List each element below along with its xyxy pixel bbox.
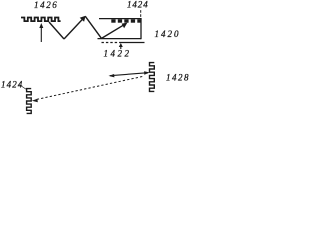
dashed connector with left arrowhead xyxy=(37,76,144,99)
prism 1420 bottom edge xyxy=(98,38,142,40)
svg-text:1426: 1426 xyxy=(34,0,58,10)
svg-text:1420: 1420 xyxy=(155,29,181,39)
leader from label 1424 to prism corner xyxy=(140,10,142,18)
svg-text:1424: 1424 xyxy=(1,79,23,89)
base line 1422 (dashed then solid) xyxy=(102,42,121,44)
grating 1426 (horizontal comb) xyxy=(21,18,61,22)
beam segment A (wire) xyxy=(49,22,64,39)
svg-text:1424: 1424 xyxy=(127,0,149,9)
prism 1420 right edge xyxy=(140,18,142,39)
beam segment D with arrowhead xyxy=(102,24,126,38)
prism 1420 top edge xyxy=(99,18,141,20)
svg-text:1428: 1428 xyxy=(166,73,190,83)
beam segment C (wire) xyxy=(85,16,101,38)
up arrow 1422 xyxy=(120,45,122,49)
double-headed solid arrow at comb 1428 xyxy=(110,73,148,76)
svg-text:1422: 1422 xyxy=(104,49,132,59)
comb 1428 (vertical zipper, right) xyxy=(150,63,155,92)
beam segment B with arrowhead xyxy=(64,18,84,39)
comb 1424 (vertical zipper, bottom left) xyxy=(27,89,32,114)
grating teeth row 1424 on prism xyxy=(111,19,141,22)
leader from bottom 1424 label to comb xyxy=(19,85,27,90)
up arrow into grating xyxy=(40,28,42,42)
